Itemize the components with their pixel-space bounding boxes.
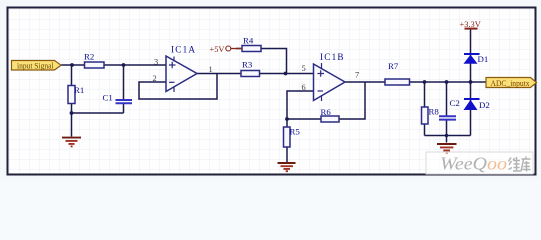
svg-text:IC1B: IC1B [320, 52, 345, 62]
svg-text:6: 6 [302, 83, 306, 92]
svg-text:R3: R3 [242, 60, 253, 70]
svg-text:3: 3 [154, 58, 158, 67]
svg-text:WeeQoo: WeeQoo [440, 154, 507, 174]
svg-text:input Signal: input Signal [17, 60, 54, 70]
svg-text:R7: R7 [388, 61, 399, 71]
svg-text:1: 1 [209, 65, 213, 74]
svg-text:R4: R4 [243, 36, 254, 46]
svg-text:R8: R8 [429, 107, 440, 117]
svg-text:2: 2 [153, 74, 157, 83]
svg-text:5: 5 [302, 64, 306, 73]
svg-text:R5: R5 [290, 127, 301, 137]
svg-text:R2: R2 [84, 52, 94, 62]
svg-text:ADC_inputx: ADC_inputx [491, 78, 531, 88]
svg-text:R6: R6 [321, 107, 332, 117]
svg-text:C1: C1 [103, 93, 113, 103]
svg-text:IC1A: IC1A [171, 45, 196, 55]
svg-text:+5V: +5V [210, 45, 225, 54]
svg-text:C2: C2 [450, 98, 460, 108]
svg-text:+3.3V: +3.3V [460, 20, 481, 29]
svg-text:R1: R1 [74, 85, 84, 95]
svg-text:D1: D1 [478, 54, 489, 64]
svg-text:7: 7 [355, 70, 359, 79]
svg-text:D2: D2 [479, 100, 490, 110]
